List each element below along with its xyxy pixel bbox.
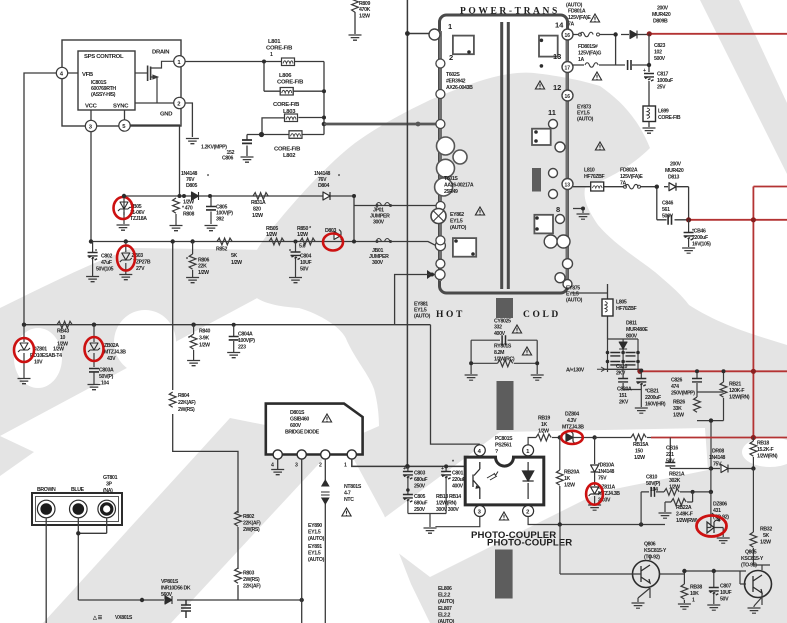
svg-text:+: + [403,466,406,472]
wire pin2 down to rail [528,517,560,525]
svg-text:1/2W: 1/2W [538,429,549,435]
svg-text:VX801S: VX801S [115,615,133,621]
svg-text:R803: R803 [243,571,254,577]
svg-text:C803A: C803A [99,368,114,374]
svg-text:RB22A: RB22A [676,505,692,511]
svg-text:50V: 50V [666,459,675,465]
bus rail y124 to transformer [324,123,440,126]
svg-text:1/2W: 1/2W [564,483,575,489]
resistor R852 [217,238,232,245]
wire bridge pin3 down [301,459,303,623]
svg-text:4-7: 4-7 [344,491,351,497]
svg-text:EL2.2: EL2.2 [438,593,451,599]
svg-text:D805: D805 [186,183,197,189]
svg-text:MTZJ4.3B: MTZJ4.3B [104,350,126,356]
resistor RB18 [752,438,754,442]
svg-text:1/2W(RW): 1/2W(RW) [676,518,698,524]
zener DZ811A [594,472,596,486]
ground IC pin2 [186,139,199,144]
red circle mark DZ804 [561,431,583,444]
svg-text:C804: C804 [300,254,311,260]
divider bar HOT/COLD isolation blocks [495,298,514,599]
resistor R802 [235,511,242,526]
svg-text:GSIB460: GSIB460 [290,417,309,423]
transformer winding circles mid-left [437,137,455,155]
svg-text:200V: 200V [657,6,669,12]
svg-text:125V(FA)G: 125V(FA)G [578,51,601,57]
svg-text:3P: 3P [106,482,113,488]
svg-text:50V: 50V [300,267,309,273]
svg-text:1: 1 [448,22,452,31]
svg-text:MUR420: MUR420 [665,168,684,174]
svg-text:33K: 33K [673,406,682,412]
ground bridge pin4 [277,459,279,469]
svg-text:N: N [76,508,80,514]
svg-text:C817: C817 [657,72,668,78]
svg-text:392: 392 [216,217,224,223]
transformer winding boxes secondary [532,129,551,145]
svg-text:L699: L699 [658,109,669,115]
svg-text:C801: C801 [452,471,463,477]
transformer core bars [502,22,509,289]
svg-text:75V: 75V [713,462,722,468]
svg-text:*D810A: *D810A [598,463,615,469]
transformer right winding bus [566,34,569,284]
red wire A130 rail [640,370,787,372]
photo-coupler PC801S box [465,457,544,505]
wire pin4 to left rail [24,73,56,325]
svg-text:EY862: EY862 [450,212,464,218]
resistor R809 [352,0,359,12]
svg-text:300V 300V: 300V 300V [436,507,459,513]
svg-text:2200uF: 2200uF [645,395,661,401]
phototransistor inside [473,462,480,499]
wire pin13 L810 row [573,186,668,188]
svg-text:8: 8 [556,205,560,214]
svg-text:Q805: Q805 [745,550,757,556]
svg-text:680uF: 680uF [414,477,427,483]
svg-text:EY1.5: EY1.5 [450,219,463,225]
capacitor C806 [242,140,252,143]
svg-text:EL2.2: EL2.2 [438,613,451,619]
svg-text:RB15A: RB15A [633,442,649,448]
svg-text:(AUTO): (AUTO) [577,117,594,123]
svg-text:10UF: 10UF [720,590,731,596]
svg-text:?: ? [495,449,498,455]
svg-text:600V: 600V [290,423,302,429]
svg-text:FD801S#: FD801S# [578,44,598,50]
svg-text:1/2W: 1/2W [266,232,277,238]
zener ZB02A [93,325,95,367]
mosfet Q inside IC801S [68,61,174,120]
wires GT801 [46,518,106,623]
svg-text:680uF: 680uF [414,501,427,507]
svg-text:1/2W: 1/2W [673,413,684,419]
wire pin5 SYNC right and down [130,125,179,196]
svg-text:820: 820 [253,207,261,213]
svg-text:25R49: 25R49 [444,189,458,195]
svg-text:1/2W: 1/2W [634,455,645,461]
caps bottom rail to ground [408,514,446,528]
svg-text:(AUTO): (AUTO) [308,557,325,563]
svg-text:VCC: VCC [85,104,98,110]
svg-text:2KV: 2KV [619,400,629,406]
svg-text:FD801A: FD801A [568,9,586,15]
svg-text:12: 12 [553,83,561,92]
inductor L803 [285,114,298,122]
svg-text:1/2W(RN): 1/2W(RN) [757,454,778,460]
svg-text:RB19: RB19 [538,416,550,422]
resistor RB38 [681,584,688,599]
diode VP801S [165,596,172,604]
svg-text:100V(P): 100V(P) [238,338,255,344]
photo coupler pins [474,445,485,456]
diode D804 [323,192,330,200]
wire pin3 to ground [436,517,480,528]
svg-text:L: L [44,508,48,514]
capacitor C823 [628,60,631,70]
resistor R831A [253,193,268,200]
svg-text:AX26-0043B: AX26-0043B [446,85,473,91]
rail Q806 collector to Q805 base [684,571,746,584]
wire pin2 to ground [185,103,193,137]
zener DZ806 [707,492,723,537]
varistor VX801S stack [181,600,191,618]
pin 1 circle [174,56,185,67]
svg-text:C802: C802 [101,254,112,260]
svg-text:BLUE: BLUE [71,487,85,493]
svg-text:L810: L810 [584,168,595,174]
svg-text:400V: 400V [452,484,464,490]
wire EY881 pin to rail [395,275,435,325]
svg-text:125V(FA)E: 125V(FA)E [568,15,591,21]
svg-text:EY1.5: EY1.5 [308,551,321,557]
svg-text:EL806: EL806 [438,586,452,592]
capacitor C803A [89,369,99,372]
bus x407 elbow to transformer pin1 [407,33,429,35]
wire bridge pin2 down with NTC [324,459,326,623]
capacitor C805b [407,490,409,514]
svg-text:PC801S: PC801S [495,436,513,442]
svg-text:C810: C810 [646,475,657,481]
svg-text:1/2W: 1/2W [359,14,370,20]
svg-text:2W(RS): 2W(RS) [243,527,260,533]
svg-text:1N4148: 1N4148 [709,455,726,461]
svg-text:CORE-F/B: CORE-F/B [658,115,681,121]
svg-text:L806: L806 [279,73,292,79]
terminal N [70,500,88,518]
svg-text:220uF: 220uF [452,477,465,483]
zener DZ801 [23,325,25,378]
svg-text:△ ☰: △ ☰ [92,615,103,621]
svg-text:10UF: 10UF [300,260,311,266]
capacitor C807 [713,584,715,604]
svg-text:NT801S: NT801S [344,484,362,490]
transistor Q805 [745,571,772,598]
svg-text:500V: 500V [662,214,674,220]
svg-text:302K: 302K [669,478,681,484]
svg-text:C820A: C820A [617,387,632,393]
svg-text:R831A: R831A [251,200,266,206]
svg-text:250V(MPP): 250V(MPP) [671,391,695,397]
svg-text:1/2W: 1/2W [53,347,64,353]
ground C806 [241,157,254,162]
wire y468 [670,468,711,470]
svg-text:1/2W: 1/2W [198,270,209,276]
transformer winding box bottom-left [453,238,476,257]
svg-text:8.2M: 8.2M [494,350,504,356]
capacitor C804 [295,242,297,278]
svg-text:+: + [441,466,444,472]
svg-text:25V: 25V [657,85,666,91]
svg-text:431: 431 [713,508,721,514]
svg-text:5K: 5K [231,253,238,259]
wire pin17 row C823 [573,34,649,72]
resistor R808 [173,198,180,213]
svg-text:3-9K: 3-9K [199,336,209,342]
svg-text:CORE-F/B: CORE-F/B [273,102,299,108]
svg-text:(AUTO): (AUTO) [308,536,325,542]
svg-text:SYNC: SYNC [113,104,129,110]
capacitor C810 and resistor RB21A row [641,469,711,525]
pin 5 circle [119,120,130,131]
svg-text:D813: D813 [668,175,679,181]
svg-text:FD802A: FD802A [620,168,638,174]
svg-text:1/2W: 1/2W [760,540,771,546]
svg-text:KSC815-Y: KSC815-Y [741,556,764,562]
transformer pin circle rail B [436,202,445,211]
capacitor C820A [623,372,641,390]
diode DR08 [711,468,753,470]
svg-text:T602S: T602S [446,72,460,78]
inductor L699 [643,106,656,122]
wire L805 column from transformer [572,284,608,339]
rail y524 [560,524,665,526]
svg-text:CORE-F/B: CORE-F/B [274,147,300,153]
svg-text:MUR420: MUR420 [652,12,671,18]
rail lower row to JB01 and transformer pin [91,242,436,246]
svg-text:KSC815-Y: KSC815-Y [644,548,667,554]
svg-text:Q806: Q806 [644,542,656,548]
svg-text:CORE-F/B: CORE-F/B [277,80,303,86]
svg-text:102: 102 [654,50,662,56]
red wire lower 437 rail [651,437,787,439]
resistor RB32 [752,530,754,532]
resistor RB15A [595,437,631,439]
red circle mark DZ801 [14,338,34,362]
svg-text:T601S: T601S [444,176,458,182]
svg-text:16: 16 [565,94,571,100]
bridge pins [273,450,282,459]
diode D809B [630,31,637,39]
red wire right edge vertical [753,187,787,438]
svg-text:22K: 22K [198,264,207,270]
svg-text:50V: 50V [720,597,729,603]
capacitor CB16 [669,438,671,469]
svg-text:DR08: DR08 [712,449,724,455]
svg-text:1/2W: 1/2W [669,485,680,491]
svg-text:120K-F: 120K-F [729,388,744,394]
fuse FD802A [625,184,638,189]
ground R809 [349,35,362,40]
svg-text:EL807: EL807 [438,606,452,612]
svg-text:ZB02A: ZB02A [104,343,119,349]
resistor RB43 [57,321,72,328]
svg-text:400V: 400V [494,331,506,337]
LED inside [523,462,534,499]
junction dot rail196 x354 [352,194,356,198]
resistor R804 [169,392,176,407]
svg-text:DZ806: DZ806 [713,502,727,508]
svg-text:D811: D811 [626,321,637,327]
svg-text:1/2W(RC): 1/2W(RC) [494,357,515,363]
red circle mark DZ806 [697,516,727,537]
svg-text:560V: 560V [161,592,173,598]
svg-text:561: 561 [662,207,670,213]
pin 3 circle [85,120,96,131]
svg-text:HF70ZBF: HF70ZBF [584,174,605,180]
diode D803 [334,230,343,242]
resistor R803 [235,568,242,583]
svg-text:4.3V: 4.3V [567,418,577,424]
red wire 130V mid rail [689,219,787,221]
svg-text:1.2KV(MPP): 1.2KV(MPP) [201,145,227,151]
svg-text:C823: C823 [654,43,665,49]
wire L802 row [247,124,324,135]
svg-text:D801S: D801S [290,410,305,416]
bottom rail y=600 [78,599,301,601]
vertical feed x=173 down to R802 R803 [173,242,238,601]
svg-text:MTZJ4.3B: MTZJ4.3B [598,491,620,497]
svg-text:22K(AF): 22K(AF) [243,584,261,590]
svg-text:DRAIN: DRAIN [152,50,169,56]
zener DZ804 [566,432,575,444]
svg-text:5.6: 5.6 [299,244,306,250]
transistor Q806 [633,561,660,588]
terminal block GT801 [32,493,122,525]
svg-text:C806: C806 [222,156,233,162]
svg-text:HF70ZBF: HF70ZBF [616,306,637,312]
transformer pin circles left column [429,29,440,40]
svg-text:1K: 1K [541,422,548,428]
svg-text:GT801: GT801 [103,475,118,481]
resistor R806 [192,242,194,255]
svg-text:22K(AF): 22K(AF) [243,521,261,527]
svg-text:125V(FA)E: 125V(FA)E [620,174,643,180]
svg-text:MUR480E: MUR480E [626,327,648,333]
svg-text:C826: C826 [671,378,682,384]
svg-text:470K: 470K [359,7,371,13]
diode D813 [669,183,676,191]
capacitor CB46 [688,220,690,247]
svg-text:16: 16 [565,33,571,39]
svg-text:EY890: EY890 [308,523,322,529]
svg-text:(ASSY-H/S): (ASSY-H/S) [91,92,116,98]
red circle mark D803 [323,234,343,251]
svg-text:13: 13 [565,183,571,189]
svg-text:1000uF: 1000uF [657,78,673,84]
svg-text:C846: C846 [662,201,673,207]
diode D805 [192,192,199,200]
resistor RB19 [536,434,551,441]
svg-text:D809B: D809B [653,19,668,25]
transformer left winding bus [439,31,442,281]
ground small right of transformer [573,209,583,214]
svg-text:PS2561: PS2561 [495,443,512,449]
svg-text:COLD: COLD [523,310,561,320]
svg-text:1/2W(RN): 1/2W(RN) [729,395,750,401]
svg-text:200V: 200V [670,162,682,168]
resistor R850 [300,238,315,245]
red circle mark ZB03 [117,246,135,271]
resistor RB21 [720,382,727,397]
wire L803 row [262,118,324,135]
svg-text:1/2W: 1/2W [231,260,242,266]
rail JP01 row [354,205,436,207]
svg-text:EY1.5: EY1.5 [308,530,321,536]
svg-text:*CB46: *CB46 [692,229,706,235]
jumper JB01 [376,239,390,242]
svg-text:RB43: RB43 [57,329,69,335]
svg-text:NTC: NTC [344,497,354,503]
IC801S outer box [62,40,181,126]
svg-text:250V: 250V [414,484,426,490]
capacitor C806 leads [246,135,248,157]
svg-text:R802: R802 [243,514,254,520]
svg-text:221: 221 [666,452,674,458]
svg-text:1/2W: 1/2W [199,343,210,349]
svg-text:R804: R804 [178,393,189,399]
pin 4 circle [56,67,67,78]
svg-text:(AUTO): (AUTO) [414,314,431,320]
capacitor C826 group [697,371,724,468]
red circle mark ZB02A [85,337,104,361]
svg-text:2KV: 2KV [616,371,626,377]
svg-text:50V(P): 50V(P) [99,374,114,380]
svg-text:5K: 5K [763,533,770,539]
zener ZB05 [123,196,125,215]
svg-text:R852: R852 [216,247,227,253]
inductor L801 [282,58,295,66]
svg-text:CORE-F/B: CORE-F/B [266,46,292,52]
svg-text:L803: L803 [283,109,296,115]
svg-text:223: 223 [238,345,246,351]
svg-text:RB21: RB21 [729,382,741,388]
wire pin1 up to RB19 rail [528,438,536,445]
capacitor C803 [407,466,409,490]
svg-text:2W(RS): 2W(RS) [178,407,195,413]
svg-text:R808: R808 [183,212,194,218]
svg-text:500V: 500V [654,56,666,62]
capacitor CB21 [640,371,642,408]
rail D805 row [124,196,354,242]
capacitor C804A [233,325,235,352]
svg-text:(AUTO): (AUTO) [438,599,455,605]
bridge diode D801S box [266,404,363,455]
svg-text:474: 474 [671,384,679,390]
svg-text:300V: 300V [372,260,384,266]
svg-text:EY891: EY891 [308,544,322,550]
svg-text:14: 14 [555,21,564,30]
transformer winding box primary top [453,36,474,55]
svg-text:7A: 7A [620,181,627,187]
svg-text:22K(AF): 22K(AF) [178,400,196,406]
svg-text:1A: 1A [578,57,585,63]
wire pin16 to FD801A to D809B [573,35,629,66]
svg-text:50V(105: 50V(105 [96,267,114,273]
capacitor C801 [445,466,447,513]
capacitor C805 [210,196,212,224]
